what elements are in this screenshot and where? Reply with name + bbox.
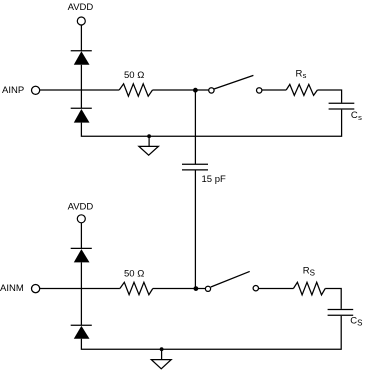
wire sampling node to 15pF (top) bbox=[194, 90, 196, 164]
wire Rs to Cs (top) bbox=[317, 90, 341, 103]
svg-text:Rs: Rs bbox=[296, 68, 307, 80]
resistor 50 ohm (bottom) bbox=[120, 282, 153, 294]
svg-text:AVDD: AVDD bbox=[68, 201, 94, 212]
svg-text:50 Ω: 50 Ω bbox=[124, 70, 144, 81]
switch S1 (top, open) bbox=[209, 75, 262, 93]
resistor Rs (bottom) bbox=[293, 282, 325, 295]
resistor Rs (top) bbox=[286, 84, 317, 95]
input terminal AINM bbox=[31, 285, 39, 293]
wire Cs to ground rail (top) bbox=[81, 110, 341, 137]
wire 50 ohm to sampling node (bottom) bbox=[153, 288, 196, 290]
diode D4 (AINM lower, bottom) bbox=[71, 325, 92, 339]
svg-text:AVDD: AVDD bbox=[68, 2, 94, 13]
diode D3 (AINM to AVDD, bottom) bbox=[71, 248, 92, 262]
svg-text:RS: RS bbox=[303, 265, 315, 277]
power terminal AVDD (bottom) bbox=[77, 215, 85, 223]
wire node to switch (top) bbox=[195, 89, 208, 91]
wire diode chain vertical (top) bbox=[80, 65, 82, 108]
svg-text:AINM: AINM bbox=[0, 283, 24, 294]
svg-text:CS: CS bbox=[350, 316, 362, 328]
ground symbol (bottom) bbox=[151, 349, 171, 369]
wire 50 ohm to sampling node (top) bbox=[153, 89, 196, 91]
wire AINM to 50 ohm resistor bbox=[40, 288, 120, 290]
input terminal AINP bbox=[31, 86, 39, 94]
svg-text:Cs: Cs bbox=[351, 110, 362, 122]
junction ground rail dot (bottom) bbox=[160, 347, 164, 351]
wire AINP to 50 ohm resistor bbox=[40, 89, 120, 91]
svg-text:AINP: AINP bbox=[2, 85, 24, 96]
ground symbol (top) bbox=[139, 136, 159, 155]
svg-text:50 Ω: 50 Ω bbox=[124, 268, 144, 279]
diode D2 (AINP lower, top) bbox=[71, 108, 92, 122]
wire Rs to Cs (bottom) bbox=[325, 289, 341, 309]
wire switch to Rs (bottom) bbox=[259, 288, 294, 290]
wire Cs to ground rail (bottom) bbox=[81, 316, 341, 349]
wire node to switch (bottom) bbox=[196, 288, 206, 290]
power terminal AVDD (top) bbox=[77, 17, 85, 25]
diode D1 (AINP to AVDD, top) bbox=[71, 51, 92, 65]
wire 15pF to bottom sampling node bbox=[194, 171, 196, 289]
junction ground rail dot (top) bbox=[147, 134, 151, 138]
wire diode chain vertical (bottom) bbox=[80, 262, 82, 325]
junction sampling node (top) bbox=[193, 88, 198, 93]
svg-text:15 pF: 15 pF bbox=[202, 174, 226, 185]
capacitor Cs (top) bbox=[329, 103, 355, 109]
capacitor 15pF bbox=[182, 164, 208, 170]
switch S2 (bottom, open) bbox=[205, 271, 258, 291]
wire AVDD stem (top) bbox=[80, 25, 82, 51]
capacitor Cs (bottom) bbox=[328, 310, 354, 316]
wire switch to Rs (top) bbox=[262, 89, 286, 91]
resistor 50 ohm (top) bbox=[119, 84, 152, 96]
junction sampling node (bottom) bbox=[194, 286, 199, 291]
wire AVDD stem (bottom) bbox=[80, 223, 82, 249]
